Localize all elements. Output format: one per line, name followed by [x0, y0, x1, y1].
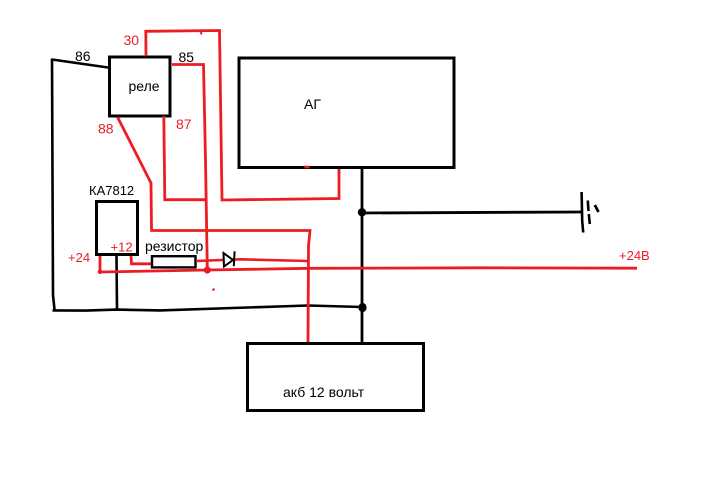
wire bottom ground bus [53, 306, 363, 311]
stray red dot [212, 288, 215, 291]
svg-text:КА7812: КА7812 [89, 183, 134, 198]
red tick artifact on wire 30 [200, 32, 203, 35]
red artifact on AG bottom border [305, 166, 310, 169]
wire to ground symbol [362, 212, 581, 213]
ground symbol [582, 192, 599, 233]
svg-text:+12: +12 [111, 240, 133, 255]
KA7812 input pin wire [99, 256, 102, 272]
svg-text:85: 85 [179, 49, 195, 65]
svg-text:87: 87 [176, 116, 192, 132]
wire resistor to diode to wire 88 [196, 259, 308, 261]
wire +12 output to resistor [131, 256, 151, 264]
svg-text:реле: реле [129, 78, 160, 94]
svg-text:АГ: АГ [304, 96, 321, 112]
junction dot on +24 bus [204, 266, 211, 273]
KA7812 ground pin [115, 256, 118, 310]
AG box [239, 58, 454, 168]
battery box [248, 344, 424, 411]
resistor box R1 [152, 256, 196, 267]
wire 30 : relay top, over and down to AG bottom [146, 31, 339, 201]
wire 85 : relay right, down to +24 bus [172, 65, 207, 270]
svg-text:резистор: резистор [145, 238, 204, 254]
svg-text:86: 86 [75, 48, 91, 64]
wire 88 : relay bottom diagonal, down, right, down to battery [118, 117, 311, 344]
svg-text:акб 12 вольт: акб 12 вольт [283, 384, 365, 400]
relay K1 box [110, 57, 171, 116]
junction node lower [358, 303, 366, 312]
wire 87 : relay bottom down then right to wire 85 [164, 116, 206, 200]
+24 bus wire [100, 268, 637, 272]
svg-text:88: 88 [98, 121, 114, 137]
svg-text:30: 30 [124, 32, 140, 48]
wire left vertical [52, 59, 55, 310]
diode D1 [224, 251, 235, 266]
wire 86 top segment [52, 60, 108, 68]
svg-text:+24: +24 [68, 250, 90, 265]
KA7812 box U1 [97, 202, 138, 255]
wire AG ground vertical [361, 168, 364, 344]
junction node upper [358, 208, 366, 216]
junction dot at KA7812 input [98, 270, 103, 275]
svg-text:+24В: +24В [619, 248, 650, 263]
